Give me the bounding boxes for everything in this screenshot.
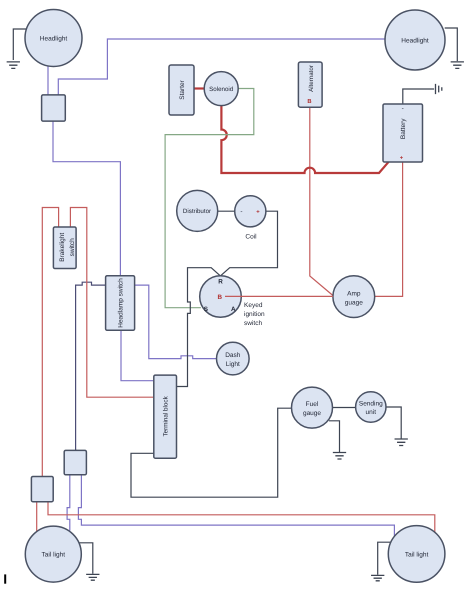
svg-text:Headlight: Headlight (401, 37, 429, 44)
svg-text:Fuel: Fuel (306, 401, 319, 408)
svg-text:B: B (218, 294, 223, 301)
svg-text:Headlamp switch: Headlamp switch (117, 278, 124, 328)
svg-text:-: - (402, 106, 404, 113)
svg-text:Terminal block: Terminal block (162, 395, 169, 436)
svg-text:+: + (256, 210, 260, 216)
svg-text:A: A (231, 306, 236, 313)
svg-text:R: R (218, 279, 223, 286)
svg-text:Amp: Amp (347, 291, 361, 298)
svg-text:Dash: Dash (225, 352, 241, 359)
svg-text:Distributor: Distributor (183, 208, 211, 215)
svg-text:Tail light: Tail light (42, 552, 66, 559)
svg-text:Starter: Starter (179, 79, 186, 99)
svg-text:ignition: ignition (244, 311, 265, 318)
svg-text:Alternator: Alternator (308, 65, 315, 92)
svg-text:B: B (307, 99, 311, 105)
svg-text:Headlight: Headlight (40, 35, 68, 42)
svg-text:Brakelight: Brakelight (59, 233, 66, 262)
svg-text:Sending: Sending (359, 401, 383, 408)
svg-text:Tail light: Tail light (405, 551, 429, 558)
svg-text:S: S (204, 306, 208, 313)
svg-text:switch: switch (69, 238, 76, 256)
svg-text:switch: switch (244, 320, 262, 327)
svg-text:Solenoid: Solenoid (209, 86, 234, 93)
svg-text:Light: Light (226, 361, 240, 368)
svg-text:gauge: gauge (303, 410, 321, 417)
svg-text:unit: unit (366, 409, 377, 416)
svg-text:-: - (240, 209, 242, 216)
svg-text:guage: guage (345, 300, 363, 307)
svg-text:Keyed: Keyed (244, 302, 263, 309)
svg-text:Coil: Coil (245, 234, 257, 241)
svg-text:Battery: Battery (400, 118, 407, 139)
